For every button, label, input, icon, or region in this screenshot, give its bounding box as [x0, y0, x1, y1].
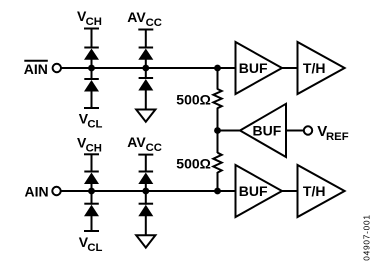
wire AIN line to diode D8 [145, 191, 147, 205]
terminal AIN input circle (bottom) [52, 187, 60, 195]
wire divider bottom segment [217, 172, 219, 191]
terminal tick VCL top [84, 107, 99, 109]
svg-text:AIN: AIN [25, 184, 49, 200]
svg-text:T/H: T/H [303, 183, 326, 199]
op-amp BUF middle (VREF buffer, points left) [240, 104, 286, 157]
svg-text:CH: CH [86, 16, 102, 28]
op-amp T/H top [298, 42, 345, 94]
label AVCC top [127, 9, 162, 29]
wire bottom BUF to T/H [282, 190, 298, 192]
svg-text:CL: CL [87, 242, 102, 254]
diode D7 clamp to AVCC (bottom) [138, 172, 153, 185]
label AVCC bottom [127, 134, 162, 154]
junction top AIN(bar) / divider [214, 65, 221, 72]
wire AVCC tick to diode D3 [145, 30, 147, 49]
svg-text:500Ω: 500Ω [176, 91, 211, 107]
svg-text:BUF: BUF [253, 123, 282, 139]
wire AVCC tick to diode D7 [145, 155, 147, 172]
terminal tick AVCC bottom [138, 154, 153, 156]
diode D5 clamp to VCH (bottom) [84, 172, 99, 185]
svg-text:AIN: AIN [24, 61, 48, 77]
svg-text:CC: CC [146, 142, 162, 154]
resistor 500 ohm (lower) [213, 153, 221, 173]
diode D6 clamp from VCL (bottom) [84, 204, 99, 217]
diode D1 clamp to VCH (top) [84, 48, 99, 60]
label VCL bottom-left [79, 234, 103, 254]
diode D4 clamp from ground (top) [138, 78, 153, 91]
label VCL top-left [79, 111, 103, 131]
wire D6 anode to VCL tick [91, 216, 93, 231]
terminal VREF circle [304, 126, 312, 134]
wire divider midpoint to VREF buffer [218, 130, 241, 132]
wire VCH tick to diode D5 [91, 154, 93, 172]
op-amp BUF bottom [236, 165, 283, 217]
svg-text:CL: CL [87, 119, 102, 131]
terminal tick AVCC top [138, 29, 153, 31]
label VCH bottom-left [77, 134, 102, 154]
resistor 500 ohm (upper) [213, 89, 221, 108]
label VCH top-left [77, 8, 102, 28]
junction AIN/AVCC branch (bottom) [142, 188, 149, 195]
svg-text:AV: AV [127, 9, 146, 25]
wire AIN(bar) line to diode D4 [145, 68, 147, 79]
wire divider top segment [217, 68, 219, 90]
diode D2 clamp from VCL (top) [84, 79, 99, 92]
wire VREF buffer to terminal [286, 130, 304, 132]
wire VCH tick to diode D1 [91, 29, 93, 49]
wire AIN(bar) line to diode D2 [91, 68, 93, 80]
node AIN(bar) label [24, 61, 48, 77]
ground symbol (top) [136, 110, 155, 122]
svg-text:04907-001: 04907-001 [362, 214, 372, 260]
wire AIN line to diode D6 [91, 191, 93, 205]
terminal tick VCH top [84, 28, 99, 30]
svg-text:BUF: BUF [239, 60, 268, 76]
svg-text:500Ω: 500Ω [176, 155, 211, 171]
wire D5 anode to AIN line [91, 184, 93, 192]
svg-text:REF: REF [326, 131, 349, 143]
wire D8 anode to ground [145, 216, 147, 236]
junction AIN/VCH-VCL branch (bottom) [88, 188, 95, 195]
svg-text:CH: CH [86, 142, 102, 154]
wire D2 anode to VCL tick [91, 91, 93, 108]
wire D7 anode to AIN line [145, 184, 147, 192]
junction AIN(bar)/VCH-VCL branch [88, 65, 95, 72]
wire bottom AIN horizontal line [61, 190, 236, 192]
svg-text:AV: AV [127, 134, 146, 150]
svg-text:BUF: BUF [239, 183, 268, 199]
wire D1 anode to AIN(bar) line [91, 59, 93, 68]
wire D4 anode to ground [145, 90, 147, 110]
diode D8 clamp from ground (bottom) [138, 204, 153, 217]
wire D3 anode to AIN(bar) line [145, 59, 147, 68]
junction bottom AIN / divider [214, 188, 221, 195]
op-amp BUF top [236, 42, 283, 94]
junction VREF divider midpoint [214, 127, 221, 134]
svg-text:CC: CC [146, 17, 162, 29]
svg-text:T/H: T/H [303, 60, 326, 76]
terminal AIN(bar) input circle [53, 64, 61, 72]
wire top AIN horizontal line [61, 67, 235, 69]
junction AIN(bar)/AVCC branch [142, 65, 149, 72]
diode D3 clamp to AVCC (top) [138, 48, 153, 60]
node VREF label [317, 123, 348, 143]
ground symbol (bottom) [136, 235, 155, 247]
terminal tick VCL bottom [84, 230, 99, 232]
terminal tick VCH bottom [84, 153, 99, 155]
wire top BUF to T/H [282, 67, 298, 69]
op-amp T/H bottom [298, 165, 345, 217]
wire divider middle upper segment [217, 108, 219, 153]
